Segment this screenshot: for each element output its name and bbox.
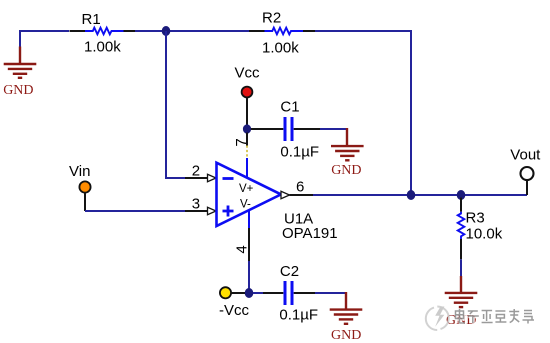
wire C1 to gnd — [320, 128, 347, 130]
wire left gnd riser — [20, 31, 69, 48]
svg-text:6: 6 — [296, 179, 304, 196]
svg-text:GND: GND — [331, 163, 361, 178]
svg-text:1.00k: 1.00k — [262, 40, 299, 57]
terminal Vout — [510, 147, 541, 196]
pin 2 lead — [185, 163, 216, 182]
pin 6 output lead — [281, 179, 313, 199]
svg-text:2: 2 — [192, 163, 200, 180]
svg-text:4: 4 — [234, 245, 251, 253]
svg-text:1.00k: 1.00k — [84, 38, 121, 55]
node output-R2 — [407, 190, 416, 200]
svg-text:3: 3 — [192, 196, 200, 213]
node Vcc junction — [243, 124, 251, 133]
capacitor C1 — [251, 99, 320, 161]
svg-text:Vin: Vin — [69, 163, 90, 180]
svg-text:V-: V- — [240, 198, 251, 210]
svg-text:0.1µF: 0.1µF — [279, 307, 318, 324]
svg-text:10.0k: 10.0k — [466, 226, 503, 243]
svg-text:R2: R2 — [262, 10, 281, 27]
svg-text:R1: R1 — [82, 11, 101, 28]
pin 4 lead — [234, 210, 251, 289]
svg-text:C2: C2 — [280, 263, 299, 280]
wire feedback to pin2 — [166, 31, 185, 178]
terminal Vin — [69, 163, 91, 211]
node output-R3 — [457, 190, 466, 200]
svg-text:7: 7 — [233, 138, 250, 146]
pin 3 lead — [185, 196, 216, 215]
svg-text:Vcc: Vcc — [235, 65, 261, 82]
svg-text:Vout: Vout — [510, 147, 541, 164]
watermark logo and text — [426, 306, 535, 330]
ground GND (R3) — [445, 276, 478, 307]
wire C2 to gnd — [315, 292, 346, 294]
resistor R3 — [458, 198, 503, 260]
wire output row — [313, 194, 527, 196]
node -Vcc junction — [245, 288, 254, 298]
wire R1 to R2 — [135, 30, 249, 32]
svg-text:R3: R3 — [466, 210, 485, 227]
power Vcc — [235, 65, 261, 126]
wire R2 to output node — [315, 31, 411, 195]
wire R3 to gnd — [460, 259, 462, 277]
resistor R1 — [70, 11, 136, 55]
power -Vcc — [219, 287, 250, 319]
svg-text:GND: GND — [331, 328, 361, 343]
svg-text:V+: V+ — [239, 183, 254, 195]
svg-text:GND: GND — [3, 83, 33, 98]
op-amp U1A — [217, 163, 338, 242]
svg-text:C1: C1 — [280, 99, 299, 116]
wire Vin to pin3 — [85, 210, 185, 212]
pin 7 lead — [233, 133, 250, 178]
capacitor C2 — [253, 263, 318, 324]
svg-text:OPA191: OPA191 — [282, 225, 338, 242]
node feedback junction — [162, 26, 171, 36]
svg-text:0.1µF: 0.1µF — [280, 144, 319, 161]
ground GND (C1) — [331, 128, 364, 160]
resistor R2 — [249, 10, 315, 57]
ground GND (top-left) — [4, 47, 37, 78]
svg-text:-Vcc: -Vcc — [219, 302, 250, 319]
ground GND (C2) — [330, 292, 363, 324]
